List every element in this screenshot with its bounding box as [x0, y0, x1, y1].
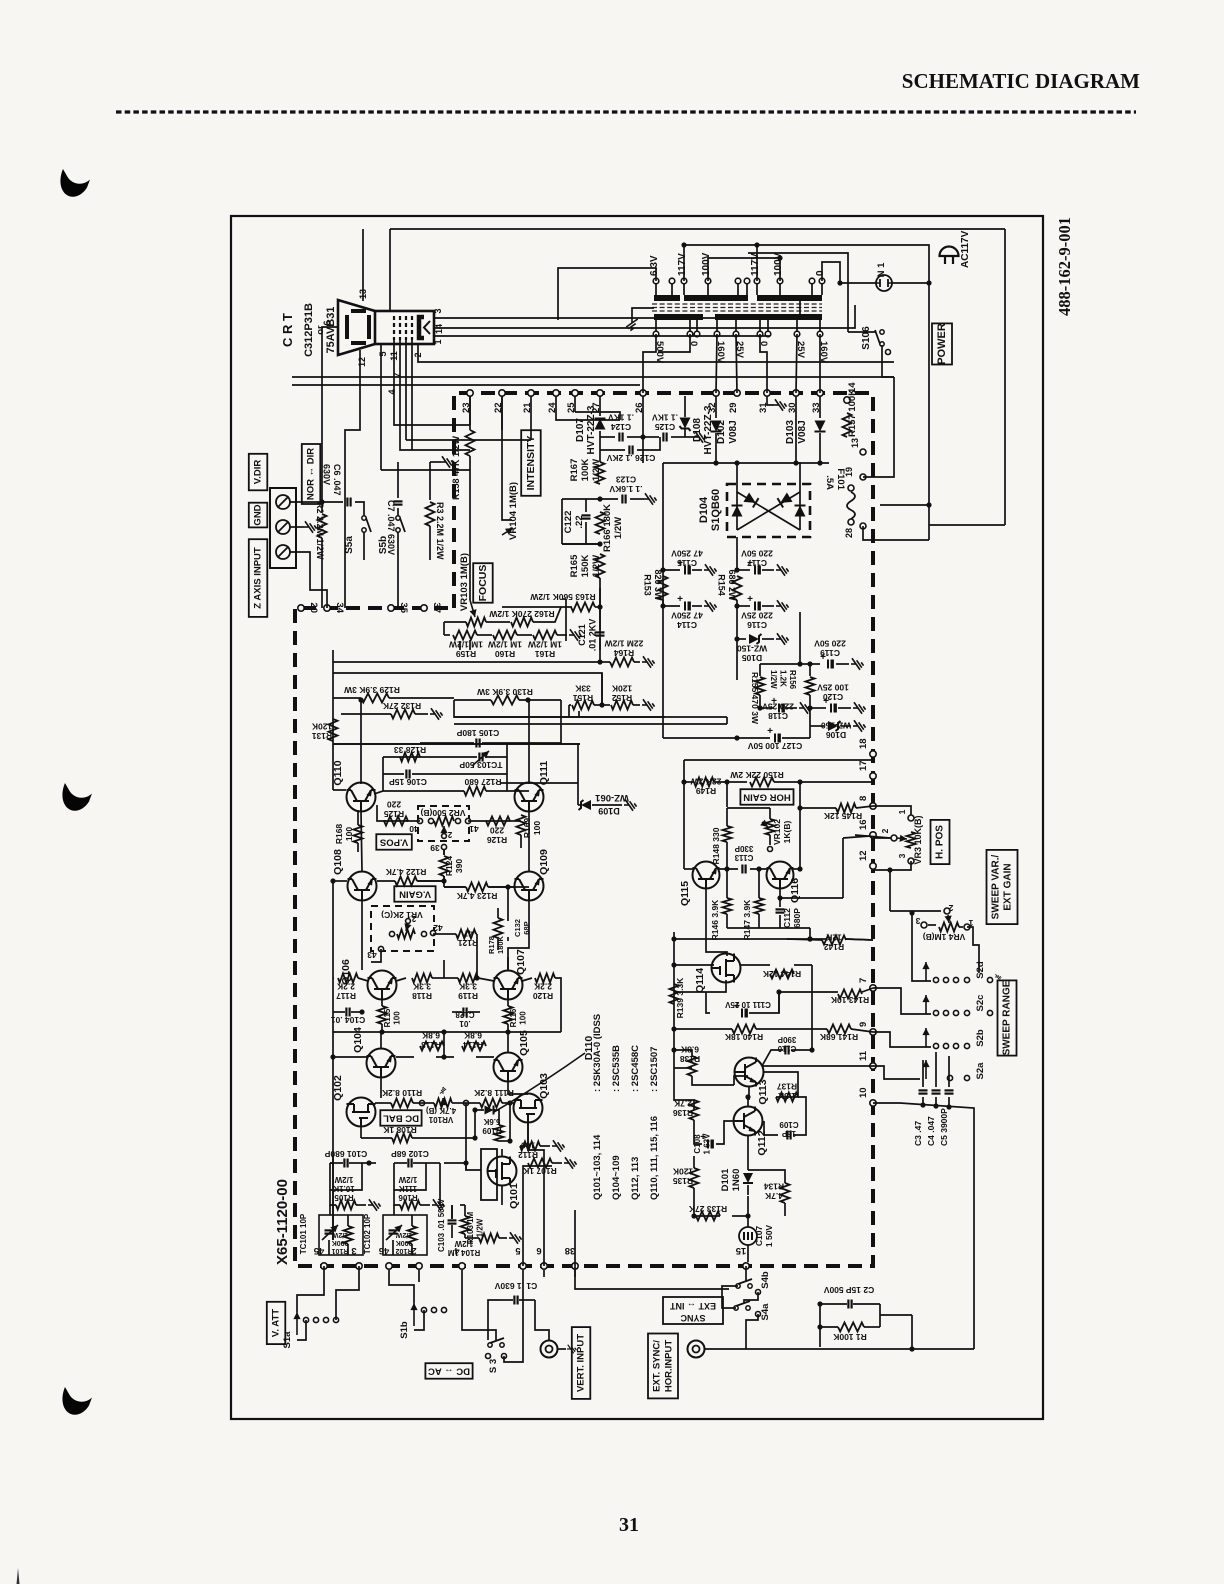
resistor R108 1K	[392, 1134, 412, 1143]
GND screw terminal	[276, 520, 290, 534]
wire 25 drop	[574, 396, 576, 412]
svg-text:.01: .01	[459, 1019, 471, 1028]
svg-text:0: 0	[815, 270, 826, 276]
svg-text:S4b: S4b	[760, 1271, 771, 1289]
svg-text:R2 2.2M 1/2W: R2 2.2M 1/2W	[315, 502, 325, 560]
transformer primary tap o	[735, 278, 741, 284]
svg-text:R107 1K: R107 1K	[522, 1166, 556, 1176]
terminal 21	[528, 390, 534, 396]
resistor R103 1M 1/2W	[461, 1216, 470, 1234]
svg-text:75AVB31: 75AVB31	[325, 307, 337, 354]
svg-text:117V: 117V	[677, 253, 688, 276]
EXT.SYNC/HOR.INPUT box	[648, 1334, 678, 1399]
resistor R119 3.3K	[444, 977, 458, 979]
svg-text:C312P31B: C312P31B	[303, 303, 315, 357]
svg-text:R130 3.9K 3W: R130 3.9K 3W	[476, 687, 533, 697]
wire crt pin12	[359, 350, 361, 380]
svg-text:+: +	[677, 594, 683, 605]
svg-text:180K: 180K	[496, 935, 505, 954]
wire 30 to bridge	[796, 396, 800, 492]
CRT grid electrodes (dashed)	[394, 316, 412, 340]
transformer secondary windings	[654, 314, 703, 320]
rail to terminal 17 with R149 R150	[683, 760, 685, 782]
trimmer TC103 50P	[478, 753, 480, 762]
svg-text:R162 270K 1/2W: R162 270K 1/2W	[488, 609, 554, 619]
wire sec 160V down	[716, 334, 717, 393]
terminal 2	[416, 1263, 422, 1269]
zener D109 WZ-061	[578, 804, 580, 806]
svg-text:100 25V: 100 25V	[817, 683, 849, 693]
resistor R152 120K	[602, 704, 610, 706]
svg-text:V08J: V08J	[728, 420, 739, 443]
binder mark 3	[62, 1387, 92, 1415]
svg-text:R164: R164	[614, 648, 635, 658]
VERT. INPUT box	[572, 1327, 591, 1399]
svg-text:EXT ↔ INT: EXT ↔ INT	[670, 1301, 717, 1311]
svg-text:C103 .01 500V: C103 .01 500V	[437, 1198, 446, 1252]
EXT jack	[688, 1341, 705, 1358]
ground at GND terminal	[290, 526, 304, 528]
resistor R132 27K	[341, 713, 391, 715]
VR1 dashed box	[371, 906, 434, 951]
transformer primary tap o	[809, 278, 815, 284]
capacitor C3 .47	[922, 1060, 924, 1087]
bridge rectifier D104 S1QB60 dashed box	[727, 484, 810, 537]
wire dropdown 21	[530, 396, 532, 440]
resistor R126 220	[486, 817, 510, 826]
svg-text:R126: R126	[487, 835, 508, 845]
svg-text:14: 14	[434, 324, 444, 334]
terminal 28	[860, 523, 866, 529]
resistor R116 100	[504, 1006, 513, 1024]
svg-text:220 25V: 220 25V	[741, 611, 773, 621]
svg-text:31: 31	[619, 1514, 639, 1536]
terminal 19	[860, 474, 866, 480]
svg-text:VR2 500(B): VR2 500(B)	[420, 808, 465, 818]
resistor R158 47K 1/2W	[469, 396, 471, 430]
svg-text:VR4 1M(B): VR4 1M(B)	[923, 932, 966, 942]
svg-text:S1a: S1a	[282, 1331, 293, 1349]
svg-text:220 25V: 220 25V	[762, 702, 794, 712]
svg-text:R166 180K: R166 180K	[602, 504, 613, 552]
svg-text:HOR GAIN: HOR GAIN	[743, 792, 791, 803]
svg-text:820 3W: 820 3W	[653, 569, 663, 601]
capacitor C125 .1 1KV	[643, 436, 659, 438]
V.DIR label	[249, 454, 267, 491]
svg-text:1/2W: 1/2W	[334, 1175, 353, 1184]
terminal 38	[572, 1263, 578, 1269]
resistor R154 680 2W	[736, 537, 738, 570]
resistor R106 111K 1/2W	[400, 1201, 420, 1210]
transistor Q108	[348, 872, 377, 901]
svg-text:4: 4	[387, 389, 397, 394]
svg-text:SWEEP VAR./: SWEEP VAR./	[990, 854, 1001, 919]
wire dropdown 22	[501, 396, 503, 430]
svg-text:150K: 150K	[580, 555, 591, 578]
svg-text:C123: C123	[616, 475, 637, 485]
terminal 29	[734, 390, 740, 396]
svg-text:R122 4.7K: R122 4.7K	[385, 867, 426, 877]
svg-text:S2c: S2c	[975, 995, 986, 1012]
svg-text:R139 3.3K: R139 3.3K	[675, 977, 685, 1018]
rail y673	[333, 673, 602, 705]
Q116 emitter junction	[779, 889, 781, 898]
diode D110	[485, 1106, 494, 1115]
loop top	[727, 807, 770, 809]
transformer core ground	[632, 308, 654, 318]
capacitor C7 .047 630V	[397, 462, 399, 498]
resistor R169 100	[517, 815, 526, 835]
svg-text:.22: .22	[574, 515, 585, 528]
resistor R104 1M 1/2W	[479, 1234, 499, 1243]
wire crt bell bottom	[381, 469, 470, 471]
FET Q101	[488, 1157, 517, 1186]
main unit dashed boundary	[295, 393, 873, 1266]
svg-text:390: 390	[454, 859, 464, 873]
binder mark 1	[60, 169, 90, 197]
resistor R164 22M 1/2W	[600, 661, 610, 663]
svg-text:C121: C121	[577, 624, 587, 646]
resistor R166 180K 1/2W	[596, 512, 605, 534]
transistor Q105	[494, 1053, 523, 1082]
svg-text:Q108: Q108	[332, 849, 344, 875]
transistor Q104	[367, 1049, 396, 1078]
resistor R129 3.9K 3W	[333, 697, 361, 699]
svg-text:C1 .1 630V: C1 .1 630V	[494, 1281, 537, 1291]
terminal 31	[764, 390, 770, 396]
svg-text:8: 8	[858, 796, 869, 801]
svg-text:D107: D107	[575, 418, 586, 442]
svg-text:R149: R149	[696, 786, 717, 796]
capacitor C6 .047 630V	[290, 501, 343, 503]
svg-text:C3 .47: C3 .47	[913, 1121, 923, 1146]
FET Q114	[712, 954, 741, 983]
FOCUS box	[473, 563, 493, 603]
rotary switch S2c	[925, 995, 927, 1014]
transformer primary tap 100V	[705, 278, 711, 284]
resistor R146 3.9K	[726, 869, 728, 898]
svg-text:15: 15	[735, 1245, 746, 1256]
svg-text:39: 39	[430, 843, 440, 853]
wire plug drop	[928, 247, 930, 540]
svg-text:NOR ↔ DIR: NOR ↔ DIR	[306, 448, 317, 500]
wire CRT pin13 up	[362, 229, 364, 301]
svg-text:R120: R120	[533, 991, 554, 1001]
resistor R128 33	[400, 753, 420, 762]
diode D108 HVT-22Z-3	[642, 396, 644, 437]
svg-text:R1 100K: R1 100K	[832, 1332, 866, 1342]
svg-text:1/2W: 1/2W	[398, 1175, 417, 1184]
diode D103 V08J	[819, 396, 821, 418]
svg-text:R101: R101	[332, 1247, 349, 1254]
svg-text:6: 6	[536, 1245, 541, 1256]
transformer secondary tap 160V	[714, 331, 720, 337]
svg-text:220: 220	[490, 826, 504, 836]
resistor R178 180K	[494, 918, 503, 938]
wire 117Vb up	[756, 245, 758, 281]
neon lamp N1	[876, 275, 892, 291]
transformer primary tap 100V	[777, 278, 783, 284]
rotary switch S2a	[925, 1060, 927, 1079]
svg-text:3: 3	[433, 308, 443, 313]
block bottom rail	[727, 927, 810, 929]
wire sec 25Vb down	[796, 334, 797, 393]
wire to Q105	[507, 1032, 509, 1052]
svg-text:R123 4.7K: R123 4.7K	[456, 891, 497, 901]
capacitor C128 .01	[462, 1008, 464, 1017]
svg-text:Q102: Q102	[332, 1075, 344, 1101]
terminal 5	[520, 1263, 526, 1269]
junction	[597, 541, 602, 546]
svg-text:FOCUS: FOCUS	[477, 565, 489, 602]
svg-text:WZ-150: WZ-150	[821, 721, 852, 731]
svg-text:D109: D109	[598, 806, 620, 816]
capacitor C106 15P	[405, 770, 407, 779]
svg-text:12: 12	[858, 850, 869, 861]
svg-text:D108: D108	[692, 418, 703, 442]
svg-text:R131: R131	[312, 731, 333, 741]
resistor R109 5.6K	[495, 1125, 504, 1141]
long verticals to bottom edge terminals	[523, 1166, 552, 1266]
terminal 18	[870, 751, 876, 757]
svg-text:C4 .047: C4 .047	[926, 1116, 936, 1146]
capacitor C101 680P	[343, 1159, 345, 1168]
svg-text:6.3V: 6.3V	[649, 255, 660, 276]
diode D101 1N60	[747, 1160, 749, 1170]
terminal 20	[298, 605, 304, 611]
H.POS box	[931, 820, 950, 864]
svg-text:D101: D101	[720, 1168, 731, 1191]
svg-text:R125: R125	[384, 809, 405, 819]
DC BAL box	[380, 1110, 421, 1126]
resistor R168 100	[354, 825, 363, 843]
terminal 32	[713, 390, 719, 396]
svg-text:C2 15P 500V: C2 15P 500V	[823, 1285, 874, 1295]
svg-text:1 63V: 1 63V	[703, 1133, 712, 1155]
R159-R161 ground	[569, 629, 582, 640]
svg-text:.1 1KV: .1 1KV	[652, 413, 678, 423]
wire crt pin14	[434, 305, 855, 328]
wire long left vertical 2	[345, 380, 360, 608]
svg-text:47 250V: 47 250V	[671, 611, 703, 621]
svg-text:DC BAL: DC BAL	[383, 1113, 419, 1124]
svg-text:C118: C118	[768, 711, 788, 721]
block left vertical	[683, 782, 685, 869]
svg-text:HOR.INPUT: HOR.INPUT	[664, 1340, 675, 1392]
wire 117V up	[683, 245, 685, 281]
svg-text:100: 100	[519, 1011, 528, 1025]
S1b contacts	[421, 1307, 426, 1312]
vertical x800	[799, 782, 801, 869]
svg-text:R113: R113	[421, 1040, 441, 1050]
svg-text:V.POS: V.POS	[380, 837, 408, 848]
transformer primary tap 6.3V	[653, 278, 659, 284]
rotary switch S2d	[925, 962, 927, 981]
resistor R107 1K	[528, 1159, 552, 1168]
resistor R130 3.9K 3W	[453, 699, 455, 701]
svg-text:INTENSITY: INTENSITY	[525, 436, 537, 491]
CRT bell	[338, 300, 375, 355]
wire sec 0 down	[658, 334, 690, 352]
resistor R123 4.7K	[466, 883, 488, 892]
svg-text:Z AXIS INPUT: Z AXIS INPUT	[253, 547, 264, 609]
wire crt frame upper	[389, 229, 391, 311]
wire crt pin wires down	[394, 340, 470, 425]
svg-text:: 2SC1507: : 2SC1507	[649, 1047, 660, 1092]
svg-text:2.2K: 2.2K	[533, 982, 552, 992]
svg-text:R141 68K: R141 68K	[819, 1032, 858, 1042]
resistor R115 100	[378, 1006, 387, 1024]
resistor R113 6.8K	[420, 1042, 444, 1051]
svg-text:SWEEP RANGE: SWEEP RANGE	[1002, 980, 1013, 1055]
svg-text:C106 15P: C106 15P	[389, 777, 427, 787]
zener D105 WZ-150	[736, 606, 738, 680]
svg-text:C114: C114	[677, 620, 697, 630]
svg-text:R169: R169	[522, 818, 532, 839]
svg-text:37: 37	[431, 602, 442, 613]
resistor R144 12K	[770, 970, 794, 979]
Z axis screw terminal	[276, 495, 290, 509]
svg-text:4.7K (B): 4.7K (B)	[426, 1106, 457, 1115]
svg-text:.1 1.6KV: .1 1.6KV	[609, 484, 642, 494]
svg-text:Q111: Q111	[538, 761, 550, 786]
wire Q111 collector	[528, 700, 530, 784]
NOR-DIR label	[302, 444, 321, 504]
svg-text:111K: 111K	[399, 1184, 417, 1193]
svg-text:R155 470 3W: R155 470 3W	[750, 672, 760, 725]
rail y662	[333, 661, 600, 663]
V.POS box	[376, 834, 412, 850]
svg-text:.01 2KV: .01 2KV	[588, 619, 598, 652]
terminal 6	[541, 1263, 547, 1269]
capacitor C1 .1 630V	[513, 1296, 515, 1305]
svg-text:6.8K: 6.8K	[421, 1031, 440, 1041]
svg-text:C124: C124	[611, 422, 632, 432]
svg-text:+: +	[767, 726, 773, 737]
resistor R131 120K	[329, 719, 338, 741]
svg-text:C132: C132	[513, 919, 522, 937]
capacitor C126 .1 2KV	[600, 449, 625, 451]
terminal 24	[553, 390, 559, 396]
switch S4b	[736, 1279, 752, 1288]
svg-text:15P: 15P	[781, 1129, 796, 1138]
capacitor C102 68P	[407, 1159, 409, 1168]
svg-text:R144 12K: R144 12K	[762, 969, 801, 979]
svg-text:D103: D103	[785, 420, 796, 444]
svg-text:R146 3.9K: R146 3.9K	[710, 899, 720, 940]
binder mark 2	[62, 783, 92, 811]
FET Q101 box	[481, 1149, 497, 1200]
svg-text:Q110: Q110	[332, 760, 344, 785]
svg-text:100V: 100V	[773, 252, 784, 276]
svg-text:TC103 50P: TC103 50P	[459, 760, 502, 770]
svg-text:3.3K: 3.3K	[458, 982, 477, 992]
capacitor C5 3900P	[948, 1056, 950, 1087]
capacitor C4 .047	[935, 1052, 937, 1087]
svg-text:1M 1/2W: 1M 1/2W	[448, 640, 483, 650]
resistor R101 990K 1/2W	[344, 1226, 353, 1244]
wire power loop	[929, 524, 1005, 526]
long vertical feeds	[642, 437, 644, 463]
resistor R153 820 3W	[662, 463, 664, 570]
terminal 4	[459, 1263, 465, 1269]
svg-text:47: 47	[463, 929, 473, 939]
pot VR4 1M(B)	[944, 908, 950, 914]
transistor Q111	[515, 783, 544, 812]
svg-text:VERT. INPUT: VERT. INPUT	[576, 1334, 587, 1392]
svg-text:C105 180P: C105 180P	[456, 728, 499, 738]
svg-text:V. ATT: V. ATT	[271, 1309, 282, 1337]
capacitor C123 .1 1.6KV	[600, 498, 618, 500]
terminal 2 vr1	[406, 919, 411, 924]
rails right of Q115 Q116	[846, 939, 873, 940]
left rail wires	[332, 650, 334, 790]
terminal 26	[640, 390, 646, 396]
terminal 8	[870, 803, 876, 809]
svg-text:R124: R124	[444, 856, 454, 877]
svg-text:3: 3	[897, 853, 907, 858]
wire mid horizontal 385	[292, 384, 640, 386]
terminal 11	[870, 1063, 876, 1069]
terminal 3	[356, 1263, 362, 1269]
pot VR104 1M(B)	[502, 396, 512, 520]
svg-text:C112: C112	[782, 908, 792, 928]
svg-text:C122: C122	[563, 511, 574, 534]
svg-text:R105: R105	[334, 1193, 354, 1202]
transistor Q112	[734, 1107, 763, 1136]
svg-text:S2b: S2b	[975, 1029, 986, 1047]
vertical rail B	[799, 612, 801, 664]
capacitor C103 .01 500V	[448, 1219, 457, 1221]
svg-text:VR103 1M(B): VR103 1M(B)	[459, 553, 470, 611]
terminal 14	[844, 397, 850, 403]
pot VR101 4.7K(B)	[434, 1099, 452, 1108]
resistor R139 3.3K	[670, 984, 679, 1004]
svg-text:117V: 117V	[750, 253, 761, 276]
cap C119 220 50V	[760, 663, 820, 665]
svg-text:100K: 100K	[580, 459, 591, 482]
svg-text:R121: R121	[458, 938, 479, 948]
svg-text:S2d: S2d	[975, 961, 986, 979]
svg-text:100: 100	[393, 1011, 402, 1025]
transformer secondary tap o	[694, 331, 700, 337]
svg-text:1: 1	[897, 809, 907, 814]
svg-text:R161: R161	[535, 649, 556, 659]
svg-text:488-162-9-001: 488-162-9-001	[1055, 217, 1074, 316]
svg-text:R114: R114	[463, 1040, 483, 1050]
resistor R124 390	[443, 850, 445, 855]
terminal 15	[743, 1263, 749, 1269]
bus wires middle	[575, 412, 620, 420]
wire Z axis to S5a	[290, 552, 327, 608]
svg-text:Q107: Q107	[515, 949, 527, 975]
transformer secondary tap 0	[687, 331, 693, 337]
terminal 33	[817, 390, 823, 396]
svg-text:2: 2	[880, 828, 890, 833]
wire R130 bend	[454, 700, 665, 717]
transistor Q107	[494, 971, 523, 1000]
block verticals	[382, 757, 384, 791]
FET Q103	[514, 1094, 543, 1123]
svg-text:R110 8.2K: R110 8.2K	[381, 1088, 422, 1098]
transistor Q113	[735, 1058, 764, 1087]
svg-text:R117: R117	[336, 991, 356, 1001]
svg-text:R163 560K 1/2W: R163 560K 1/2W	[529, 592, 595, 602]
capacitor C2 15P 500V	[847, 1300, 849, 1309]
svg-text:AC117V: AC117V	[960, 230, 971, 268]
wire Q110 collector	[360, 700, 362, 784]
resistor R102 900K 1/2W	[408, 1226, 417, 1244]
